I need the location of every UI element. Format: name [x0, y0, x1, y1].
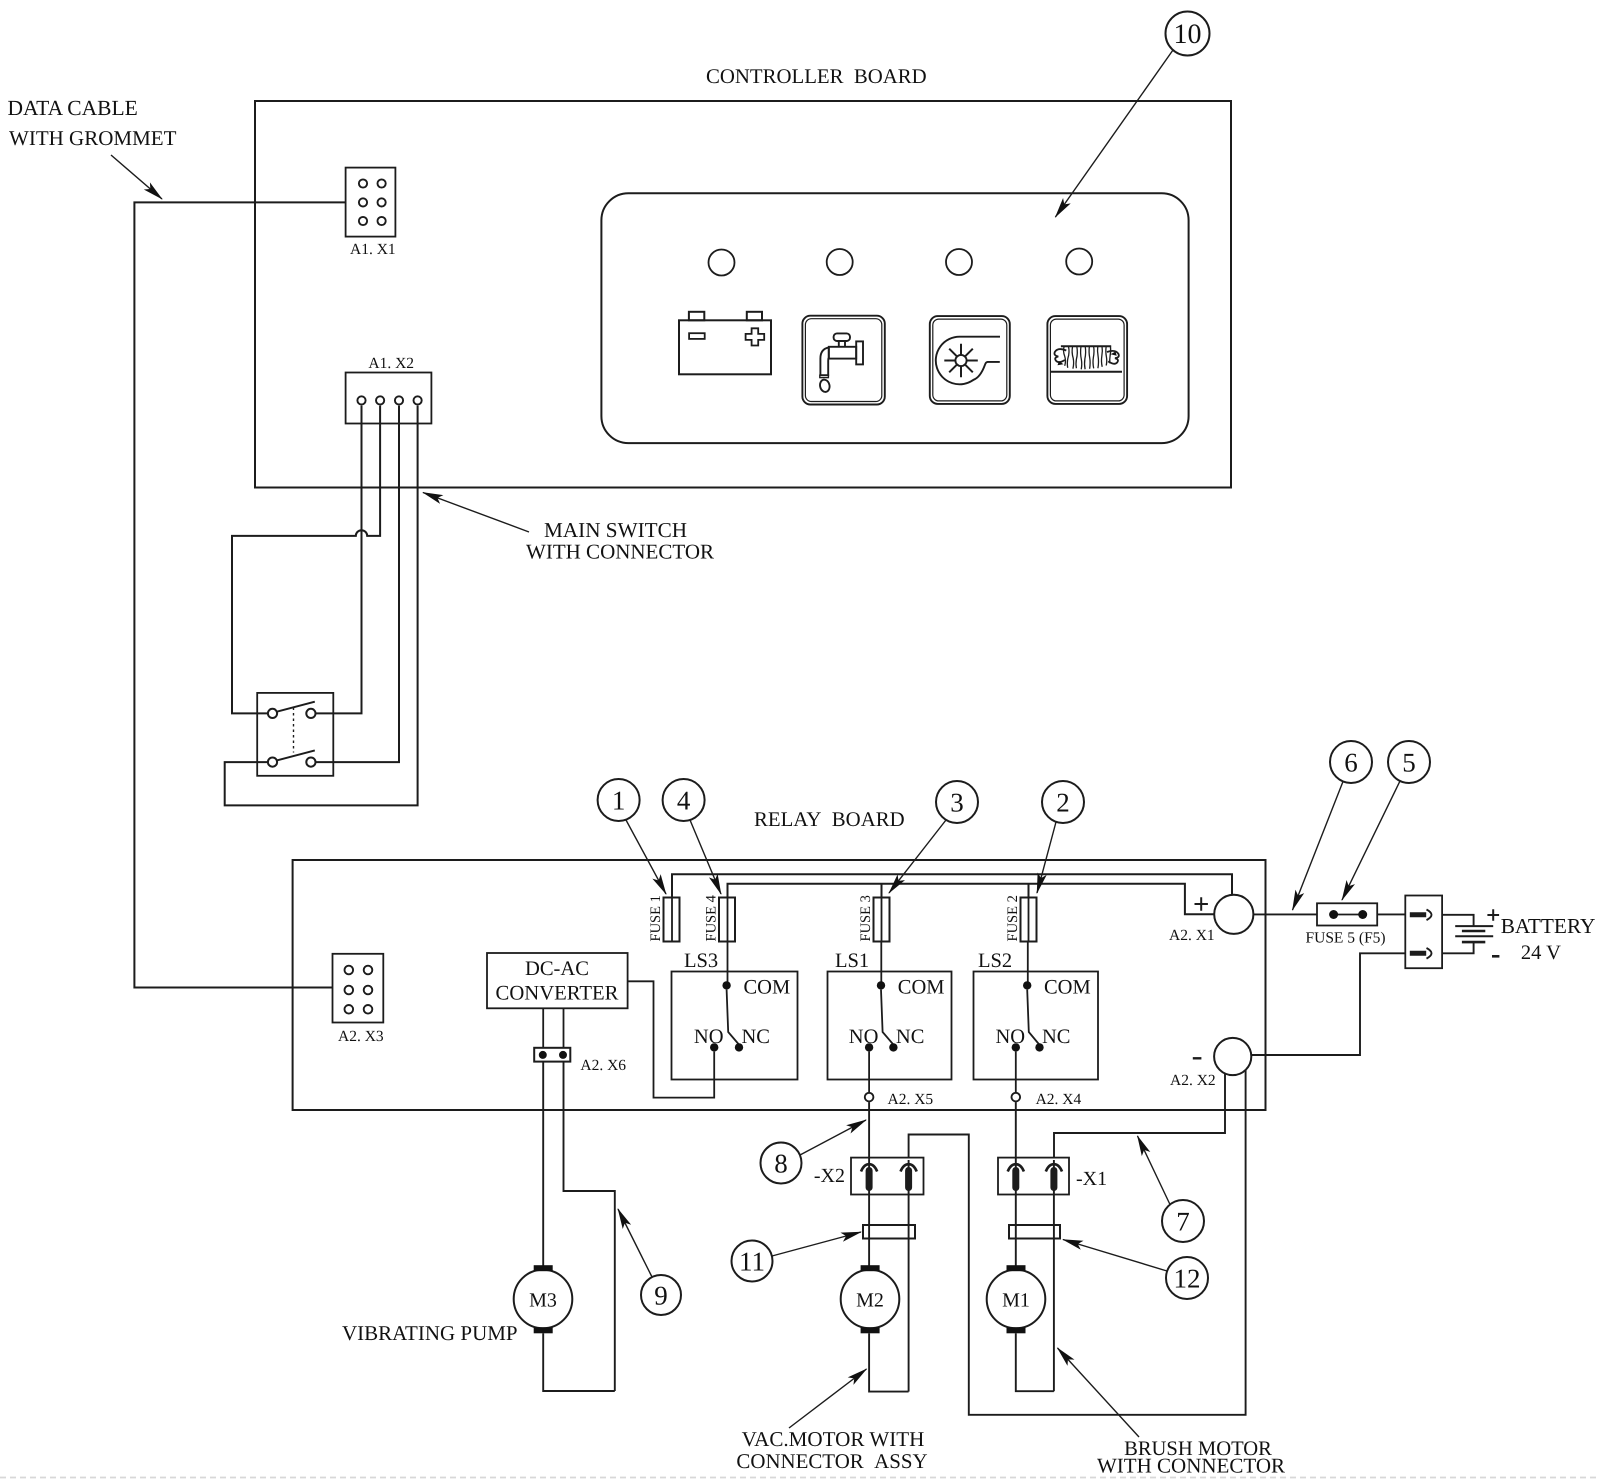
relay LS3: [672, 950, 798, 1080]
label DATA CABLE WITH GROMMET: [8, 96, 177, 199]
svg-text:NO: NO: [995, 1026, 1025, 1048]
svg-text:BATTERY: BATTERY: [1501, 914, 1596, 938]
wire A2.X2 vac motor return loop to connector X2: [909, 1070, 1246, 1415]
fuse FUSE4: [704, 894, 736, 941]
wire M1 bottom loop: [1016, 1333, 1054, 1391]
terminal A2.X1 positive: [1169, 895, 1253, 944]
wire M2 bottom loop: [869, 1333, 909, 1391]
wire A2.X5 to connector X2 and M2: [868, 1102, 870, 1266]
LED 4: [1066, 249, 1092, 275]
svg-text:DATA CABLE: DATA CABLE: [8, 96, 138, 120]
relay board A2 outline: [293, 860, 1266, 1110]
wire DC-AC converter to A2.X6 pins: [542, 1008, 544, 1048]
LED 3: [946, 249, 972, 275]
wire A2.X2 to connector X1 (brush motor return): [1054, 1074, 1225, 1158]
svg-text:FUSE 5 (F5): FUSE 5 (F5): [1306, 930, 1386, 947]
svg-text:A2. X6: A2. X6: [580, 1057, 626, 1074]
svg-text:COM: COM: [898, 977, 945, 999]
wire bus B drop to FUSE3: [881, 884, 883, 898]
vacuum fan icon button: [930, 316, 1010, 404]
wire positive bus A (A2.X1 to FUSE1): [672, 874, 1232, 897]
svg-text:NC: NC: [742, 1026, 770, 1048]
svg-text:A2. X1: A2. X1: [1169, 927, 1215, 944]
wire bus B drop to FUSE2: [1028, 884, 1030, 898]
connector A1.X2: [346, 355, 432, 424]
svg-text:A2. X2: A2. X2: [1170, 1072, 1216, 1089]
svg-text:CONNECTOR ASSY: CONNECTOR ASSY: [736, 1449, 927, 1473]
terminal A2.X5: [865, 1091, 934, 1108]
battery 24V: [1442, 909, 1595, 964]
wire A1.X2 pin2 to switch (with hop): [232, 406, 380, 714]
svg-text:NO: NO: [849, 1026, 879, 1048]
water tap icon button: [802, 316, 884, 405]
svg-text:NC: NC: [1042, 1026, 1070, 1048]
connector X2: [814, 1158, 924, 1195]
relay LS2: [974, 950, 1099, 1080]
callout 11: [732, 1232, 862, 1282]
motor M1: [987, 1265, 1046, 1333]
svg-text:FUSE 1: FUSE 1: [648, 895, 664, 941]
svg-text:11: 11: [739, 1247, 765, 1277]
page boundary dashed line: [0, 1477, 1600, 1479]
label MAIN SWITCH WITH CONNECTOR: [423, 493, 714, 564]
svg-text:CONVERTER: CONVERTER: [496, 983, 619, 1005]
label VAC.MOTOR WITH CONNECTOR ASSY: [736, 1369, 927, 1473]
wire LS2 NO to A2.X4: [1015, 1052, 1017, 1093]
callout 6: [1293, 741, 1373, 910]
wire A1.X2 pin1 to switch: [315, 406, 361, 714]
svg-text:9: 9: [654, 1281, 668, 1311]
fuse FUSE3: [858, 895, 890, 941]
svg-text:-X1: -X1: [1076, 1168, 1107, 1190]
svg-text:-X2: -X2: [814, 1165, 845, 1187]
svg-text:A2. X3: A2. X3: [338, 1028, 384, 1045]
svg-text:5: 5: [1402, 748, 1416, 778]
callout 2: [1037, 781, 1084, 893]
wire M3 bottom loop: [543, 1333, 615, 1391]
motor M3: [514, 1265, 573, 1333]
svg-text:VIBRATING PUMP: VIBRATING PUMP: [342, 1321, 518, 1345]
svg-text:4: 4: [677, 786, 691, 816]
wire X2 return down: [908, 1160, 910, 1392]
svg-text:A2. X5: A2. X5: [888, 1091, 934, 1108]
svg-text:NO: NO: [694, 1026, 724, 1048]
battery connector: [1405, 896, 1442, 969]
DC-AC converter: [487, 953, 628, 1008]
wire data cable A1.X1 to A2.X3: [134, 202, 345, 987]
svg-text:24 V: 24 V: [1521, 942, 1561, 964]
svg-text:WITH GROMMET: WITH GROMMET: [9, 126, 177, 150]
LED 1: [709, 250, 735, 276]
terminal A2.X4: [1012, 1091, 1082, 1108]
wire FUSE3 to LS1 COM: [880, 942, 882, 986]
svg-text:10: 10: [1174, 19, 1202, 50]
callout 3: [889, 781, 978, 893]
wire FUSE2 to LS2 COM: [1027, 942, 1029, 986]
svg-text:A1. X2: A1. X2: [368, 355, 414, 372]
wire FUSE4 to LS3 COM: [727, 942, 729, 986]
wire A1.X2 pin4 to switch: [225, 406, 418, 806]
motor M2: [841, 1265, 900, 1333]
wire A2.X6 right pin return: [564, 1062, 615, 1391]
brush icon button: [1047, 316, 1127, 404]
svg-text:LS3: LS3: [684, 950, 718, 972]
svg-text:2: 2: [1056, 788, 1070, 818]
svg-text:WITH CONNECTOR: WITH CONNECTOR: [1097, 1454, 1285, 1478]
wire battery negative to A2.X2: [1251, 953, 1405, 1055]
callout 1: [598, 779, 666, 894]
LED 2: [827, 249, 853, 275]
svg-text:6: 6: [1344, 748, 1358, 778]
svg-text:COM: COM: [744, 977, 791, 999]
svg-text:FUSE 4: FUSE 4: [704, 894, 720, 941]
connector A2.X6: [534, 1048, 626, 1074]
callout 10: [1055, 12, 1209, 218]
svg-text:VAC.MOTOR WITH: VAC.MOTOR WITH: [742, 1427, 925, 1451]
svg-text:7: 7: [1176, 1207, 1190, 1237]
fuse FUSE5 (F5): [1306, 903, 1386, 946]
battery icon: [679, 312, 771, 375]
wire A2.X6 left pin to M3: [542, 1062, 544, 1266]
callout 7: [1138, 1136, 1205, 1242]
svg-text:COM: COM: [1044, 977, 1091, 999]
controller board A1 outline: [255, 101, 1231, 488]
label BRUSH MOTOR WITH CONNECTOR: [1058, 1348, 1286, 1478]
connector X1: [998, 1158, 1107, 1195]
svg-text:M2: M2: [856, 1290, 884, 1312]
callout 4: [663, 779, 721, 894]
svg-text:CONTROLLER BOARD: CONTROLLER BOARD: [706, 65, 927, 88]
wire LS1 NO to A2.X5: [868, 1052, 870, 1093]
fuse FUSE1: [648, 895, 680, 941]
svg-text:FUSE 3: FUSE 3: [858, 895, 874, 941]
svg-text:12: 12: [1174, 1264, 1201, 1294]
wire A1.X2 pin3 to switch: [315, 406, 399, 762]
svg-text:A2. X4: A2. X4: [1036, 1091, 1082, 1108]
callout 8: [761, 1120, 867, 1184]
svg-text:WITH CONNECTOR: WITH CONNECTOR: [526, 540, 714, 564]
terminal A2.X2 negative: [1170, 1038, 1251, 1089]
connector A2.X3: [333, 954, 384, 1045]
inline connector item11 (vac motor): [863, 1225, 915, 1239]
callout 9: [618, 1209, 681, 1315]
svg-text:M1: M1: [1002, 1290, 1030, 1312]
svg-text:RELAY BOARD: RELAY BOARD: [754, 808, 905, 831]
svg-text:LS2: LS2: [978, 950, 1012, 972]
wire LS3 NO to DC-AC converter: [628, 981, 715, 1097]
inline connector item12 (brush motor): [1009, 1225, 1060, 1239]
svg-text:A1. X1: A1. X1: [350, 241, 396, 258]
control panel faceplate: [601, 193, 1188, 443]
svg-text:FUSE 2: FUSE 2: [1005, 895, 1021, 941]
connector A1.X1: [346, 168, 396, 258]
svg-text:NC: NC: [896, 1026, 924, 1048]
svg-text:MAIN SWITCH: MAIN SWITCH: [544, 518, 687, 542]
relay LS1: [828, 950, 952, 1080]
svg-text:DC-AC: DC-AC: [525, 958, 589, 980]
wire A2.X4 to connector X1 and M1: [1015, 1102, 1017, 1266]
wire positive bus B (A2.X1 to FUSE4 FUSE3 FUSE2): [728, 884, 1215, 915]
main switch: [257, 693, 333, 776]
svg-text:M3: M3: [529, 1290, 557, 1312]
svg-text:8: 8: [774, 1149, 788, 1179]
callout 5: [1342, 741, 1430, 900]
svg-text:3: 3: [950, 788, 964, 818]
wire A2.X1 to FUSE5: [1253, 913, 1317, 915]
svg-text:LS1: LS1: [835, 950, 869, 972]
fuse FUSE2: [1005, 895, 1037, 941]
callout 12: [1063, 1240, 1208, 1300]
svg-text:1: 1: [612, 786, 626, 816]
wire FUSE5 to battery connector: [1377, 913, 1405, 915]
wire X1 return down: [1053, 1160, 1055, 1391]
